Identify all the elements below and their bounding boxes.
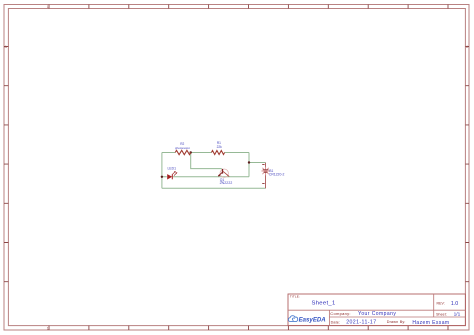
svg-text:photoresist: photoresist [175, 146, 190, 150]
svg-text:2021-11-17: 2021-11-17 [346, 320, 376, 326]
svg-text:A: A [5, 45, 8, 49]
svg-text:Company:: Company: [330, 311, 350, 316]
svg-text:A: A [466, 45, 469, 49]
svg-text:1/1: 1/1 [454, 311, 461, 317]
svg-text:CR1220-2: CR1220-2 [269, 172, 285, 176]
svg-text:EasyEDA: EasyEDA [299, 317, 326, 324]
svg-text:Sheet:: Sheet: [436, 312, 447, 316]
svg-text:1.0: 1.0 [451, 301, 458, 307]
svg-text:LED1: LED1 [168, 167, 177, 171]
svg-text:2N2222: 2N2222 [220, 181, 233, 185]
svg-text:TITLE:: TITLE: [290, 294, 300, 298]
svg-text:Drawn By:: Drawn By: [387, 320, 406, 324]
svg-text:Your Company: Your Company [358, 311, 396, 317]
svg-text:Date:: Date: [331, 320, 341, 324]
svg-text:Hazem Essam: Hazem Essam [412, 320, 449, 326]
svg-text:Sheet_1: Sheet_1 [312, 300, 336, 306]
svg-text:1: 1 [47, 327, 49, 331]
svg-text:1: 1 [47, 5, 49, 9]
svg-text:22k: 22k [217, 145, 223, 149]
svg-text:REV:: REV: [437, 302, 445, 306]
